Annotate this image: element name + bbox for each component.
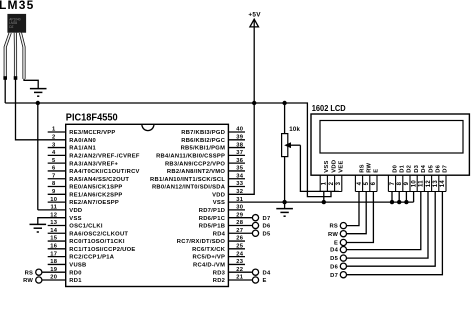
svg-text:24: 24 (236, 251, 244, 257)
wire LCD D1 pin8 to rail (398, 192, 400, 203)
svg-text:10k: 10k (289, 126, 300, 133)
ground (PIC VSS) (30, 224, 47, 232)
svg-text:D3: D3 (414, 164, 420, 172)
svg-text:17: 17 (50, 251, 57, 257)
svg-text:D0: D0 (392, 165, 398, 173)
svg-text:25: 25 (236, 244, 244, 250)
svg-text:11: 11 (50, 205, 57, 211)
svg-text:RC7/RX/DT/SDO: RC7/RX/DT/SDO (177, 239, 226, 245)
svg-text:VEE: VEE (339, 160, 345, 172)
pin 7 RA5/AN4/SS/C2OUT (48, 178, 66, 180)
pin 16 RC1/T1OSI/CCP2/UOE (48, 248, 66, 250)
svg-text:23: 23 (236, 259, 244, 265)
svg-text:10: 10 (50, 197, 57, 203)
terminal E (LCD) (340, 239, 346, 245)
svg-text:DZ: DZ (9, 25, 13, 29)
LCD pin boxes 1-3 (320, 175, 342, 191)
svg-text:7: 7 (52, 173, 56, 179)
LM35 body (TO-92 package) (7, 14, 26, 33)
svg-text:D5: D5 (263, 231, 271, 237)
wire LCD D2 pin9 to rail (405, 192, 407, 203)
svg-text:RS: RS (359, 164, 365, 173)
svg-text:RC4/D-/VM: RC4/D-/VM (193, 263, 225, 269)
pin 30 RD7/P1D (228, 209, 245, 211)
pin 34 RB1/AN10/INT1/SCK/SCL (228, 178, 245, 180)
pin 14 RA6/OSC2/CLKOUT (48, 232, 66, 234)
pin 38 RB5/KBI1/PGM (228, 147, 245, 149)
LCD screen area (320, 121, 463, 154)
pin 10 RE2/AN7/OESPP (48, 201, 66, 203)
svg-text:D7: D7 (443, 165, 449, 173)
pin 3 RA1/AN1 (48, 147, 66, 149)
pin 36 RB3/AN9/CCP2/VPO (228, 162, 245, 164)
svg-text:RB2/AN8/INT2/VMO: RB2/AN8/INT2/VMO (167, 169, 225, 175)
svg-text:VUSB: VUSB (69, 263, 86, 269)
svg-text:39: 39 (236, 134, 244, 140)
svg-text:D7: D7 (263, 216, 271, 222)
pin 15 RC0/T1OSO/T1CKI (48, 240, 66, 242)
pin 40 RB7/KBI3/PGD (228, 131, 245, 133)
svg-text:5: 5 (364, 181, 370, 185)
svg-text:RB1/AN10/INT1/SCK/SCL: RB1/AN10/INT1/SCK/SCL (150, 177, 225, 183)
pin 21 RD2 (228, 279, 252, 281)
svg-text:14: 14 (50, 228, 58, 234)
svg-text:1602 LCD: 1602 LCD (312, 104, 346, 113)
svg-text:36: 36 (236, 158, 244, 164)
svg-text:34: 34 (236, 173, 244, 179)
svg-text:RD4: RD4 (213, 231, 226, 237)
pin 9 RE1/AN6/CK2SPP (48, 193, 66, 195)
svg-text:D4: D4 (330, 248, 338, 254)
svg-text:E: E (374, 169, 380, 173)
pin 29 RD6/P1C (228, 217, 252, 219)
svg-text:RA4/T0CKI/C1OUT/RCV: RA4/T0CKI/C1OUT/RCV (69, 169, 139, 175)
svg-text:31: 31 (236, 197, 244, 203)
svg-text:RC0/T1OSO/T1CKI: RC0/T1OSO/T1CKI (69, 239, 125, 245)
svg-text:RB5/KBI1/PGM: RB5/KBI1/PGM (181, 146, 226, 152)
svg-text:RW: RW (23, 278, 33, 284)
pin 19 RD0 (36, 269, 42, 275)
chip top notch (142, 124, 154, 130)
svg-text:30: 30 (236, 205, 243, 211)
wire LCD VSS pin1 to rail (323, 192, 325, 203)
pin 23 RC4/D-/VM (228, 263, 245, 265)
svg-text:RB4/AN11/KBI0/CSSPP: RB4/AN11/KBI0/CSSPP (156, 153, 225, 159)
PIC18F4550 U1 chip body (66, 124, 229, 286)
pot wiper arrow (290, 144, 300, 146)
wire +5V bus down to VDD pin11 (37, 103, 39, 210)
svg-text:VDD: VDD (331, 160, 337, 173)
svg-text:20: 20 (50, 275, 57, 281)
svg-text:RE0/AN5/CK1SPP: RE0/AN5/CK1SPP (69, 185, 122, 191)
svg-text:D5: D5 (428, 164, 434, 172)
svg-text:RW: RW (328, 232, 338, 238)
svg-text:RB3/AN9/CCP2/VPO: RB3/AN9/CCP2/VPO (165, 161, 225, 167)
svg-text:13: 13 (433, 180, 439, 188)
wire pot bottom to rail (284, 156, 286, 202)
svg-text:E: E (263, 278, 267, 284)
svg-text:RD1: RD1 (69, 278, 82, 284)
svg-text:D7: D7 (330, 273, 338, 279)
svg-text:27: 27 (236, 228, 243, 234)
pin 13 OSC1/CLKI (48, 224, 66, 226)
potentiometer RV1 10k (282, 134, 288, 157)
svg-text:RC5/D+/VP: RC5/D+/VP (193, 255, 226, 261)
pin 25 RC6/TX/CK (228, 248, 245, 250)
pin 8 RE0/AN5/CK1SPP (48, 186, 66, 188)
svg-text:37: 37 (236, 150, 243, 156)
pin 6 RA4/T0CKI/C1OUT/RCV (48, 170, 66, 172)
svg-text:16: 16 (50, 244, 58, 250)
LM35 legs (5, 33, 10, 77)
svg-text:12: 12 (426, 180, 432, 188)
svg-text:RD0: RD0 (69, 270, 81, 276)
svg-text:1: 1 (322, 181, 328, 185)
svg-text:RE3/MCLR/VPP: RE3/MCLR/VPP (69, 130, 115, 136)
pin 5 RA3/AN3/VREF+ (48, 162, 66, 164)
pin 35 RB2/AN8/INT2/VMO (228, 170, 245, 172)
svg-text:RS: RS (25, 270, 34, 276)
svg-text:28: 28 (236, 220, 244, 226)
svg-text:RA2/AN2/VREF-/CVREF: RA2/AN2/VREF-/CVREF (69, 153, 140, 159)
pin 18 VUSB (48, 263, 66, 265)
svg-text:35: 35 (236, 166, 244, 172)
svg-text:21: 21 (236, 275, 244, 281)
junction bus/+5V/VDD32 (252, 101, 256, 105)
wire VSS pin12 to ground (38, 218, 66, 225)
svg-text:40: 40 (236, 127, 243, 133)
svg-text:10: 10 (411, 180, 417, 188)
svg-text:RE1/AN6/CK2SPP: RE1/AN6/CK2SPP (69, 192, 122, 198)
svg-text:D4: D4 (421, 164, 427, 172)
svg-text:D1: D1 (400, 164, 406, 172)
svg-text:RS: RS (329, 224, 338, 230)
svg-text:19: 19 (50, 267, 58, 273)
svg-text:RD2: RD2 (213, 278, 225, 284)
svg-text:12: 12 (50, 212, 57, 218)
ground stem (rail) (284, 202, 286, 208)
LCD pin boxes 7-14 (388, 175, 446, 191)
LCD pin boxes 4-6 (355, 175, 377, 191)
svg-text:+5V: +5V (248, 12, 261, 19)
svg-text:D6: D6 (263, 224, 271, 230)
svg-text:RD7/P1D: RD7/P1D (199, 208, 225, 214)
svg-text:RC1/T1OSI/CCP2/UOE: RC1/T1OSI/CCP2/UOE (69, 247, 135, 253)
svg-text:RA1/AN1: RA1/AN1 (69, 146, 96, 152)
svg-text:14: 14 (440, 180, 446, 188)
svg-text:RD6/P1C: RD6/P1C (199, 216, 226, 222)
svg-text:RB6/KBI2/PGC: RB6/KBI2/PGC (181, 138, 225, 144)
pin 17 RC2/CCP1/P1A (48, 256, 66, 258)
pin 24 RC5/D+/VP (228, 256, 245, 258)
svg-text:33: 33 (236, 181, 244, 187)
ground (LM35) (30, 89, 47, 97)
svg-text:18: 18 (50, 259, 58, 265)
svg-text:3: 3 (336, 181, 342, 185)
pin 39 RB6/KBI2/PGC (228, 139, 245, 141)
LM35 pin pads (3, 76, 7, 80)
+5V power symbol (253, 20, 255, 103)
junction rail/pot (282, 200, 286, 204)
svg-text:LM35: LM35 (0, 0, 34, 12)
svg-text:9: 9 (52, 189, 56, 195)
pin 33 RB0/AN12/INT0/SDI/SDA (228, 186, 245, 188)
svg-text:6: 6 (52, 166, 56, 172)
svg-text:D6: D6 (436, 164, 442, 172)
svg-text:RC2/CCP1/P1A: RC2/CCP1/P1A (69, 255, 114, 261)
pin 27 RD4 (228, 232, 252, 234)
svg-text:RW: RW (367, 162, 373, 172)
wire LCD D0 pin7 to rail (391, 192, 393, 203)
wire LM35 +Vs down to +5V bus (4, 78, 6, 103)
svg-text:VDD: VDD (69, 208, 82, 214)
svg-text:D2: D2 (407, 165, 413, 173)
svg-text:RE2/AN7/OESPP: RE2/AN7/OESPP (69, 200, 119, 206)
svg-text:3: 3 (52, 142, 56, 148)
svg-text:VSS: VSS (213, 200, 225, 206)
svg-text:RD3: RD3 (213, 270, 226, 276)
svg-text:D5: D5 (330, 256, 338, 262)
svg-text:7: 7 (390, 181, 396, 185)
pin 20 RD1 (36, 277, 42, 283)
svg-text:RB0/AN12/INT0/SDI/SDA: RB0/AN12/INT0/SDI/SDA (152, 185, 226, 191)
terminal D4 (LCD) (340, 247, 346, 253)
wire +5V down to VDD pin32 (228, 103, 254, 194)
wire LM35 Vout to RA0 pin2 (16, 78, 66, 140)
svg-text:29: 29 (236, 212, 244, 218)
svg-text:11: 11 (419, 180, 425, 187)
junction bus/VDD11 (36, 101, 40, 105)
svg-text:RA0/AN0: RA0/AN0 (69, 138, 96, 144)
svg-text:RC6/TX/CK: RC6/TX/CK (192, 247, 226, 253)
svg-text:8: 8 (52, 181, 56, 187)
svg-text:32: 32 (236, 189, 243, 195)
junction bus/pot (282, 101, 286, 105)
VSS ground rail from pin31 (228, 201, 413, 203)
junction rail/LCD pin1 (322, 200, 326, 204)
terminal D6 (LCD) (340, 263, 346, 269)
svg-text:RA5/AN4/SS/C2OUT: RA5/AN4/SS/C2OUT (69, 177, 129, 183)
ground (rail) (276, 209, 293, 217)
svg-text:1: 1 (52, 127, 56, 133)
svg-text:26: 26 (236, 236, 244, 242)
pin 37 RB4/AN11/KBI0/CSSPP (228, 154, 245, 156)
svg-text:VSS: VSS (69, 216, 81, 222)
pin 26 RC7/RX/DT/SDO (228, 240, 245, 242)
pin 22 RD3 (228, 271, 252, 273)
svg-text:D6: D6 (330, 264, 338, 270)
svg-text:RB7/KBI3/PGD: RB7/KBI3/PGD (181, 130, 225, 136)
svg-text:8: 8 (397, 181, 403, 185)
svg-text:2: 2 (329, 181, 335, 185)
svg-text:15: 15 (50, 236, 58, 242)
svg-text:E: E (334, 241, 338, 247)
pin 28 RD5/P1B (228, 224, 252, 226)
svg-text:38: 38 (236, 142, 244, 148)
svg-text:5: 5 (52, 158, 56, 164)
svg-text:4: 4 (52, 150, 56, 156)
terminal RS (LCD) (340, 223, 346, 229)
svg-text:PIC18F4550: PIC18F4550 (66, 112, 118, 124)
wire LCD D3 pin10 to rail end (413, 192, 415, 203)
svg-text:6: 6 (371, 181, 377, 185)
terminal RW (LCD) (340, 231, 346, 237)
wire LM35 GND lead to ground (24, 79, 38, 89)
wire bus to pot top (284, 103, 286, 134)
svg-text:2: 2 (52, 134, 56, 140)
terminal D7 (LCD) (340, 272, 346, 278)
svg-text:VSS: VSS (324, 160, 330, 172)
svg-text:4: 4 (357, 181, 363, 185)
svg-text:9: 9 (404, 181, 410, 185)
svg-text:13: 13 (50, 220, 58, 226)
terminal D5 (LCD) (340, 255, 346, 261)
svg-text:22: 22 (236, 267, 243, 273)
svg-text:RA6/OSC2/CLKOUT: RA6/OSC2/CLKOUT (69, 231, 128, 237)
pin 1 RE3/MCLR/VPP (48, 131, 66, 133)
wire wiper to LCD VEE pin3 (300, 145, 338, 191)
pin 4 RA2/AN2/VREF-/CVREF (48, 154, 66, 156)
svg-text:RD5/P1B: RD5/P1B (199, 224, 225, 230)
svg-text:OSC1/CLKI: OSC1/CLKI (69, 224, 103, 230)
svg-text:RA3/AN3/VREF+: RA3/AN3/VREF+ (69, 161, 118, 167)
svg-text:VDD: VDD (212, 192, 225, 198)
wire +5V bus to LCD VDD pin2 (5, 103, 331, 197)
svg-text:D4: D4 (263, 270, 271, 276)
